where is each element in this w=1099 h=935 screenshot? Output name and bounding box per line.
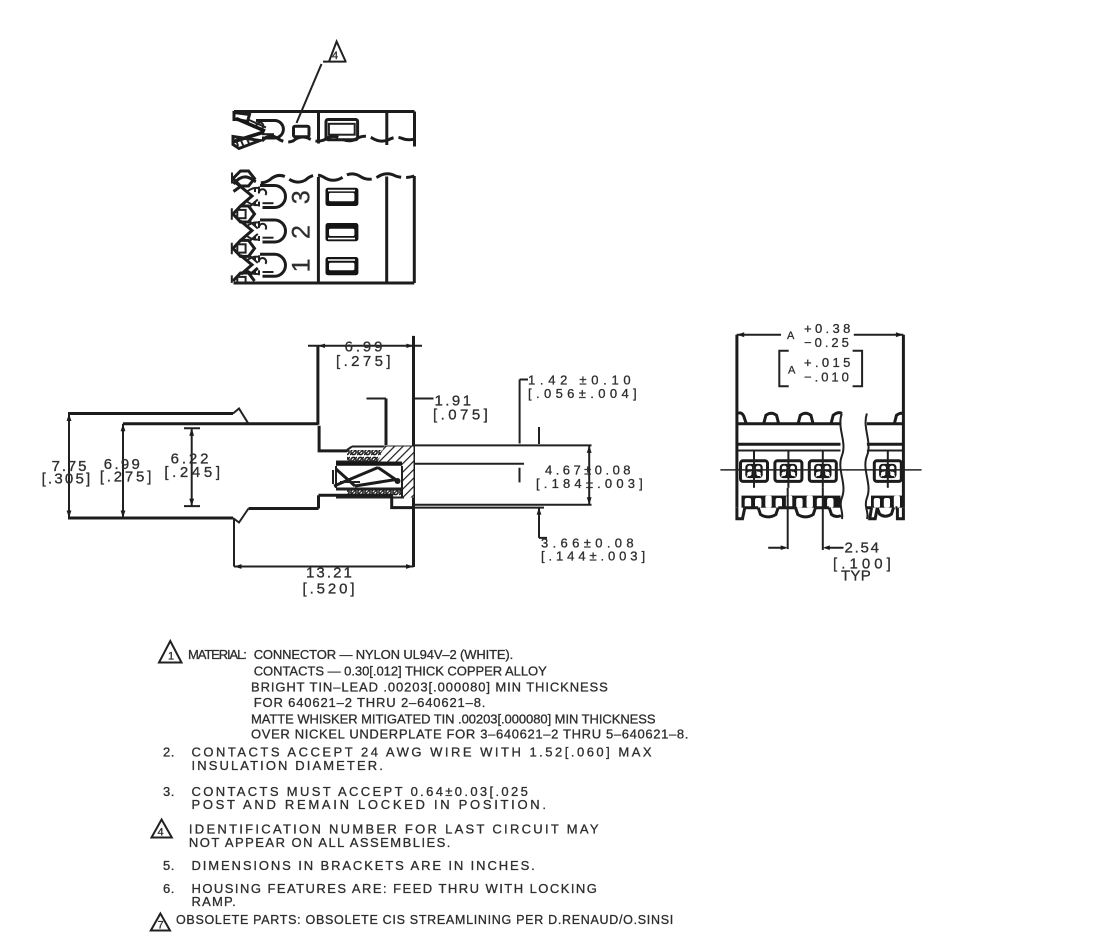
band lower line right bbox=[867, 443, 904, 446]
contact center vertical 3 bbox=[822, 451, 824, 488]
svg-text:13.21: 13.21 bbox=[306, 565, 354, 582]
view1 spring hook bbox=[256, 122, 263, 128]
svg-text:2.54: 2.54 bbox=[845, 540, 881, 557]
svg-text:[.520]: [.520] bbox=[303, 581, 358, 598]
view2 window 3 bbox=[326, 188, 359, 206]
break flag top bbox=[233, 409, 249, 424]
notes section bbox=[151, 641, 689, 932]
dim 13.21 line bbox=[234, 566, 414, 568]
right section foot left bbox=[870, 508, 878, 519]
crimp fold 3 bbox=[247, 188, 258, 205]
view1 barrel hatch bbox=[236, 139, 250, 148]
dim 1.42 bracket bbox=[520, 380, 528, 444]
svg-text:MATERIAL:: MATERIAL: bbox=[188, 647, 246, 662]
svg-text:INSULATION DIAMETER.: INSULATION DIAMETER. bbox=[192, 758, 385, 773]
spring zone lower lines bbox=[336, 482, 402, 489]
view2 partition line A bbox=[317, 177, 320, 283]
right wall bbox=[902, 335, 905, 415]
note triangle 7 bbox=[151, 914, 170, 931]
contact socket last bbox=[874, 461, 901, 482]
dim 6.22 vertical bbox=[191, 428, 193, 506]
view1 window outer bbox=[326, 120, 358, 140]
view2 bottom edge bbox=[234, 282, 415, 285]
svg-text:HOUSING FEATURES ARE: FEED THR: HOUSING FEATURES ARE: FEED THRU WITH LOC… bbox=[192, 881, 599, 896]
view1 partition line A bbox=[317, 112, 320, 144]
svg-text:4: 4 bbox=[158, 827, 164, 839]
break wavy right bbox=[865, 414, 868, 520]
dim 6.99 vertical bbox=[122, 424, 124, 518]
right section bump bbox=[877, 508, 893, 517]
svg-text:[.245]: [.245] bbox=[164, 464, 223, 481]
left wall lower bbox=[735, 415, 738, 508]
view1 crimp lower wing bbox=[234, 132, 264, 142]
top extension line second bbox=[123, 422, 318, 425]
svg-text:3.: 3. bbox=[163, 784, 175, 799]
view1 window inner bbox=[329, 124, 355, 135]
wing upper 3 bbox=[241, 187, 253, 206]
svg-text:CONTACTS — 0.30[.012] THICK CO: CONTACTS — 0.30[.012] THICK COPPER ALLOY bbox=[254, 664, 547, 679]
left foot bbox=[737, 508, 745, 519]
break flag bottom bbox=[233, 509, 249, 523]
view2 contact position 1 bbox=[241, 254, 286, 276]
bracket right bbox=[853, 351, 863, 386]
svg-text:[.275]: [.275] bbox=[336, 353, 394, 370]
view4: front (mating face) view bbox=[720, 321, 921, 585]
dim A line left segment bbox=[737, 334, 781, 336]
svg-text:[.056±.004]: [.056±.004] bbox=[528, 386, 641, 401]
svg-text:1: 1 bbox=[288, 258, 316, 272]
dim A line right segment bbox=[854, 334, 904, 336]
view1 wire barrel point bbox=[233, 137, 260, 149]
dim 7.75 vertical bbox=[68, 414, 70, 519]
bottom bump 1 bbox=[758, 508, 778, 517]
svg-text:1: 1 bbox=[168, 651, 174, 663]
svg-text:+.015: +.015 bbox=[804, 355, 854, 370]
bottom bump 3 bbox=[829, 508, 841, 517]
shelf left wall bbox=[317, 495, 320, 508]
view2: 3-position top view bbox=[232, 171, 414, 283]
view1 top edge bbox=[234, 110, 415, 113]
bump partial left bbox=[737, 413, 746, 424]
barrel collar 3 bbox=[255, 187, 259, 207]
svg-text:CONNECTOR — NYLON UL94V–2 (WHI: CONNECTOR — NYLON UL94V–2 (WHITE). bbox=[254, 647, 513, 662]
view2 partition line B bbox=[385, 177, 388, 284]
view1 right edge bbox=[413, 112, 416, 147]
comb band left bbox=[742, 496, 841, 508]
svg-text:[.275]: [.275] bbox=[100, 469, 154, 486]
horizontal centerline bbox=[720, 469, 921, 471]
svg-text:−.010: −.010 bbox=[804, 370, 852, 385]
hatch band bottom bbox=[336, 490, 404, 498]
cavity step bbox=[319, 426, 348, 451]
bottom extension line outer bbox=[68, 517, 233, 520]
view1 receptacle U bbox=[256, 120, 283, 138]
svg-text:3: 3 bbox=[288, 190, 316, 204]
body bottom after break bbox=[249, 507, 319, 510]
view3: cross-section side view bbox=[42, 336, 649, 598]
callout triangle 4 bbox=[323, 42, 347, 62]
contact socket 2 bbox=[775, 461, 802, 482]
dim 1.91 leader bbox=[415, 398, 434, 400]
shelf edge bbox=[319, 495, 414, 507]
band lower line left bbox=[737, 443, 841, 446]
view2 contact position 2 bbox=[241, 220, 286, 242]
spring zigzag bbox=[334, 468, 397, 487]
dim 3.66 bracket bbox=[539, 508, 547, 538]
bump row line left section bbox=[737, 422, 842, 425]
view1 break line wavy bottom bbox=[262, 136, 415, 142]
break wavy left bbox=[840, 414, 843, 520]
contact top plate bbox=[336, 462, 413, 466]
barrel hex below 1 bbox=[232, 268, 258, 283]
tower top edge / dim 6.99 line bbox=[308, 345, 422, 347]
dim 2.54 right extension bbox=[822, 488, 824, 550]
bump row line right section bbox=[867, 422, 904, 425]
svg-text:BRIGHT TIN–LEAD .00203[.000080: BRIGHT TIN–LEAD .00203[.000080] MIN THIC… bbox=[251, 680, 609, 695]
bottom line segments bbox=[745, 506, 898, 509]
view2 contact position 3 bbox=[234, 181, 286, 208]
svg-text:TYP: TYP bbox=[841, 568, 871, 585]
svg-text:MATTE WHISKER MITIGATED TIN .0: MATTE WHISKER MITIGATED TIN .00203[.0000… bbox=[251, 712, 656, 727]
note triangle 4 bbox=[152, 820, 172, 838]
spring contact dot bbox=[395, 478, 401, 484]
svg-text:OBSOLETE PARTS: OBSOLETE CIS S: OBSOLETE PARTS: OBSOLETE CIS STREAMLININ… bbox=[176, 913, 674, 927]
view1: single-position side detail view bbox=[233, 42, 415, 149]
view1 id notch rectangle bbox=[294, 126, 310, 136]
dim 2.54 line segments bbox=[768, 547, 843, 549]
dim 4.67 vertical bbox=[588, 445, 590, 504]
view1 crimp diagonal band 2 bbox=[248, 120, 266, 128]
note triangle 1 bbox=[159, 641, 182, 663]
svg-text:A: A bbox=[788, 365, 796, 377]
barrel hex between 2 and 1 bbox=[232, 234, 258, 263]
view2 break line wavy top bbox=[234, 174, 415, 184]
wire hole tick bbox=[367, 398, 387, 400]
barrel hex above 3 (partial) bbox=[232, 171, 255, 186]
dim 6.22 ticks bbox=[184, 428, 200, 506]
left wall bbox=[735, 335, 738, 415]
bottom bump 2 bbox=[796, 508, 816, 517]
svg-text:6.: 6. bbox=[163, 881, 175, 896]
view1 left edge bbox=[233, 112, 236, 122]
svg-text:[.144±.003]: [.144±.003] bbox=[541, 549, 649, 564]
dim 13.21 left extension bbox=[233, 519, 235, 567]
view1 partition line B bbox=[385, 112, 388, 146]
callout triangle 4 leader bbox=[297, 64, 322, 123]
right foot bbox=[897, 508, 903, 519]
view2 right edge bbox=[413, 176, 416, 283]
dim 2.54 left extension bbox=[787, 488, 789, 549]
bump partial right section bbox=[894, 413, 903, 423]
svg-text:[.305]: [.305] bbox=[42, 471, 93, 488]
contact center vertical 1 bbox=[753, 451, 755, 488]
contact socket 3 bbox=[809, 461, 836, 482]
svg-text:FOR 640621–2 THRU 2–640621–8.: FOR 640621–2 THRU 2–640621–8. bbox=[254, 695, 487, 710]
svg-text:2: 2 bbox=[288, 225, 316, 239]
receptacle U 3 bbox=[260, 186, 286, 208]
svg-text:5.: 5. bbox=[163, 858, 175, 873]
svg-text:A: A bbox=[787, 330, 795, 342]
svg-text:2.: 2. bbox=[163, 745, 175, 760]
view2 window 1 bbox=[326, 257, 359, 275]
svg-text:4: 4 bbox=[332, 50, 338, 62]
spring zone left wall bbox=[333, 466, 336, 488]
comb band right bbox=[871, 496, 902, 508]
right ext line 1.42 bottom bbox=[414, 463, 525, 465]
right ext line upper (1.42 top) bbox=[414, 444, 592, 446]
view1 crimp diagonal band bbox=[236, 119, 265, 132]
svg-text:RAMP.: RAMP. bbox=[192, 894, 238, 909]
contact center vertical 2 bbox=[787, 451, 789, 488]
right wall lower bbox=[902, 415, 905, 508]
svg-text:POST AND REMAIN LOCKED IN POSI: POST AND REMAIN LOCKED IN POSITION. bbox=[192, 797, 549, 812]
view1 receptacle inner line bbox=[262, 133, 274, 135]
bump at 771 bbox=[764, 413, 779, 423]
band thin line left bbox=[737, 450, 841, 452]
view1 crimp wing top bbox=[234, 113, 250, 122]
spring hook 3 bbox=[259, 189, 266, 195]
hatch block right bbox=[402, 447, 414, 498]
dim 4.67 ext dash bbox=[519, 468, 521, 483]
receptacle inner 3 bbox=[263, 202, 274, 204]
dim 1.42 ext dash bbox=[538, 427, 540, 444]
view2 window 2 bbox=[326, 223, 359, 241]
band thin line right bbox=[867, 450, 904, 452]
contact socket 1 bbox=[741, 461, 768, 482]
svg-text:−0.25: −0.25 bbox=[804, 335, 852, 350]
svg-text:OVER NICKEL UNDERPLATE FOR 3–6: OVER NICKEL UNDERPLATE FOR 3–640621–2 TH… bbox=[251, 727, 689, 742]
svg-text:[.184±.003]: [.184±.003] bbox=[536, 476, 647, 491]
svg-text:+0.38: +0.38 bbox=[804, 321, 854, 336]
svg-text:[.075]: [.075] bbox=[433, 407, 491, 424]
right ext line 3.66 bbox=[414, 507, 545, 509]
svg-text:7: 7 bbox=[158, 920, 164, 932]
hatch band top bbox=[336, 447, 414, 462]
mating face vertical (right edge of part, long) bbox=[412, 336, 415, 567]
top extension line outer bbox=[68, 412, 233, 415]
tower left edge bbox=[316, 346, 319, 425]
contact center vertical 4 bbox=[887, 451, 889, 488]
bump at 838 cut by break bbox=[831, 413, 842, 424]
wire tip 3 bbox=[234, 181, 241, 192]
right ext line bottom (4.67) bbox=[414, 504, 592, 506]
svg-text:NOT APPEAR ON ALL ASSEMBLIES.: NOT APPEAR ON ALL ASSEMBLIES. bbox=[189, 835, 452, 850]
bump at 806 bbox=[798, 413, 813, 423]
bracket left bbox=[779, 351, 788, 386]
wire hole inner vertical bbox=[385, 399, 388, 446]
svg-text:DIMENSIONS IN BRACKETS ARE IN: DIMENSIONS IN BRACKETS ARE IN INCHES. bbox=[192, 858, 537, 873]
barrel hex between 3 and 2 bbox=[232, 200, 258, 229]
